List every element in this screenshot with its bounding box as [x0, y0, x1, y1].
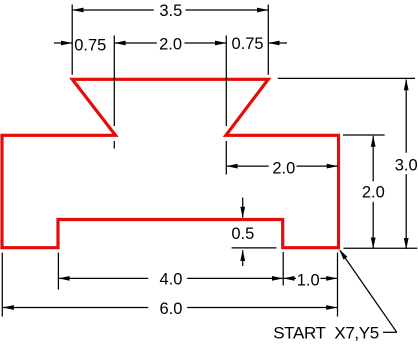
- svg-text:4.0: 4.0: [160, 271, 183, 289]
- svg-text:START X7,Y5: START X7,Y5: [273, 324, 379, 343]
- svg-text:0.75: 0.75: [74, 36, 106, 54]
- svg-text:0.75: 0.75: [231, 35, 263, 53]
- svg-text:0.5: 0.5: [231, 225, 254, 243]
- svg-text:2.0: 2.0: [272, 160, 295, 178]
- svg-text:3.5: 3.5: [159, 2, 182, 20]
- svg-text:3.0: 3.0: [395, 157, 418, 175]
- svg-text:6.0: 6.0: [160, 300, 183, 318]
- svg-text:2.0: 2.0: [362, 183, 385, 201]
- svg-text:2.0: 2.0: [159, 36, 182, 54]
- svg-text:1.0: 1.0: [297, 272, 320, 290]
